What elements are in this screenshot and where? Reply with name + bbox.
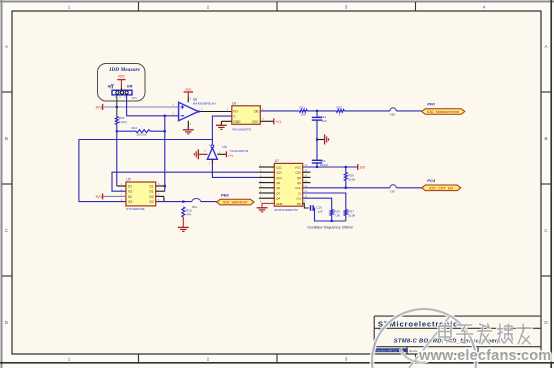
svg-text:Q9: Q9	[297, 181, 301, 185]
title block	[374, 315, 541, 317]
svg-text:Q5: Q5	[276, 186, 280, 190]
svg-text:IDD_WAKEUP: IDD_WAKEUP	[223, 201, 248, 205]
power +V1 (U4)	[217, 153, 226, 155]
svg-text:S1: S1	[128, 185, 132, 189]
svg-text:VDD: VDD	[185, 88, 192, 92]
wire R23 to R24 rail, down to U5 S1	[116, 125, 118, 187]
wire D2 to wakeup flag	[156, 201, 192, 203]
svg-text:Q8: Q8	[297, 176, 301, 180]
svg-text:Oscillator frequency 30KHz: Oscillator frequency 30KHz	[307, 226, 353, 230]
svg-text:D2: D2	[150, 200, 154, 204]
ground (R18)	[182, 217, 184, 227]
svg-text:+V1: +V1	[275, 120, 281, 124]
svg-text:STS4DNF60L: STS4DNF60L	[126, 207, 146, 211]
svg-text:IDD_Measurement: IDD_Measurement	[427, 110, 460, 114]
svg-text:G2: G2	[128, 200, 132, 204]
svg-text:2K(1%): 2K(1%)	[137, 133, 147, 137]
wire CLK long to PC4 flag	[303, 187, 390, 189]
svg-text:R24: R24	[132, 126, 138, 130]
svg-text:+V1: +V1	[228, 154, 234, 158]
svg-text:R21: R21	[300, 105, 306, 109]
ground (U9)	[221, 120, 231, 122]
svg-text:74V1G04STR: 74V1G04STR	[230, 149, 250, 153]
svg-text:SB7: SB7	[390, 189, 396, 193]
svg-text:Q7: Q7	[276, 191, 280, 195]
svg-text:on: on	[127, 83, 133, 89]
solder bridge SB4	[192, 199, 201, 202]
wire D2 tie	[156, 195, 164, 197]
resistor R21	[299, 109, 307, 112]
svg-text:3V3: 3V3	[96, 106, 102, 110]
svg-text:1uF: 1uF	[317, 209, 322, 213]
svg-text:Q10: Q10	[295, 171, 301, 175]
svg-text:PF0: PF0	[427, 102, 435, 107]
op-amp U8 MAX9938FEUK+	[179, 102, 199, 120]
ground (U7 GND)	[262, 203, 274, 207]
svg-text:PC4: PC4	[427, 178, 436, 183]
wire U4 input to U7 Q14	[211, 159, 213, 164]
svg-text:GND: GND	[233, 120, 241, 124]
wire op-amp out to U9	[198, 111, 232, 113]
net +V1 (U9 VCC)	[260, 120, 273, 122]
svg-text:Q12: Q12	[276, 165, 282, 169]
ground (U4, sideways left)	[198, 153, 207, 155]
svg-text:47K: 47K	[186, 213, 191, 217]
svg-text:B: B	[5, 136, 8, 141]
resistor R24	[117, 130, 136, 132]
inverter U4	[211, 140, 213, 145]
svg-text:Q13: Q13	[276, 171, 282, 175]
wire S1 stub	[117, 185, 126, 187]
svg-text:JP1: JP1	[132, 96, 138, 100]
border frame	[0, 1, 554, 3]
power VDD (op-amp)	[187, 96, 189, 102]
wire R21 to R22	[307, 110, 336, 112]
svg-text:www.elecfans.com: www.elecfans.com	[418, 348, 551, 364]
wire U9 OE to R21	[260, 110, 299, 112]
wire jumper pin3 (on) to op-amp -in	[127, 95, 179, 116]
svg-text:10K: 10K	[301, 112, 306, 116]
svg-text:100nF: 100nF	[320, 163, 329, 167]
svg-text:Q14: Q14	[276, 176, 282, 180]
resistor R23	[115, 117, 118, 125]
svg-text:Q6: Q6	[276, 181, 280, 185]
resistor R29	[330, 210, 333, 216]
svg-text:IDD_CNT_EN: IDD_CNT_EN	[429, 186, 453, 190]
svg-text:U5: U5	[126, 178, 130, 182]
svg-text:VCC: VCC	[295, 165, 301, 169]
U7 right stubs	[303, 171, 311, 173]
svg-text:B: B	[544, 136, 547, 141]
resistor R22	[336, 109, 344, 112]
ground (C14, sideways)	[317, 139, 325, 141]
svg-text:A: A	[544, 44, 547, 49]
svg-text:G1: G1	[128, 190, 132, 194]
svg-text:I/O: I/O	[233, 110, 238, 114]
wire U9 C pin down	[212, 116, 231, 139]
capacitor C15	[316, 140, 318, 161]
wire jumper pin1 (off) down	[116, 95, 118, 117]
svg-text:CI: CI	[298, 191, 301, 195]
svg-text:M74HC4060TTR: M74HC4060TTR	[274, 208, 298, 212]
svg-text:7.5K: 7.5K	[334, 213, 340, 217]
wire U7 pin to R29	[303, 198, 332, 209]
IC U7 M74HC4060TTR	[274, 163, 302, 206]
svg-text:3V3: 3V3	[360, 165, 366, 169]
svg-text:74V1G66STR: 74V1G66STR	[232, 127, 252, 131]
svg-text:R22: R22	[337, 105, 343, 109]
svg-text:Q4: Q4	[276, 197, 280, 201]
svg-text:U7: U7	[275, 159, 279, 163]
svg-text:1uF: 1uF	[322, 119, 327, 123]
wire Q13 to U5 G1	[112, 172, 259, 191]
svg-text:510K: 510K	[348, 213, 355, 217]
svg-text:SB6: SB6	[390, 113, 396, 117]
net 3V3 (U7 VCC)	[357, 164, 359, 170]
U7 left stubs	[259, 166, 274, 168]
ground (op-amp)	[187, 121, 189, 130]
wire R22 to flag	[344, 110, 390, 112]
watermark	[372, 309, 551, 368]
resistor R18	[182, 207, 185, 217]
svg-text:IDD Measure: IDD Measure	[108, 67, 140, 73]
svg-text:D2: D2	[150, 195, 154, 199]
svg-text:CO: CO	[297, 197, 302, 201]
svg-text:PE6: PE6	[221, 193, 229, 198]
svg-text:OE: OE	[254, 110, 259, 114]
wire D1 net vertical	[164, 116, 166, 191]
solder bridge SB7	[390, 185, 396, 188]
capacitor C16	[303, 203, 309, 208]
svg-text:S2: S2	[128, 195, 132, 199]
IDD Measure callout box	[98, 64, 146, 102]
svg-text:SB4: SB4	[192, 205, 198, 209]
svg-text:510K: 510K	[348, 177, 355, 181]
capacitor C14	[316, 111, 318, 118]
solder bridge SB6	[390, 108, 396, 111]
wire D1 stubs	[156, 185, 165, 187]
resistor R26	[345, 167, 347, 172]
jumper JP1	[112, 90, 132, 95]
svg-text:VDD: VDD	[118, 75, 125, 79]
svg-text:VCC: VCC	[252, 120, 259, 124]
resistor R27	[344, 210, 347, 216]
svg-text:1(1%): 1(1%)	[119, 120, 127, 124]
svg-text:U9: U9	[232, 101, 236, 105]
wire 3V3 to op-amp +in	[103, 106, 179, 108]
wire control net (U4 out to U9 C / U5 G2 loop)	[79, 140, 213, 202]
svg-text:GND: GND	[276, 202, 282, 206]
svg-text:CLK: CLK	[295, 186, 301, 190]
svg-text:Number:MB751: Number:MB751	[376, 349, 397, 353]
svg-text:D1: D1	[150, 190, 154, 194]
svg-text:A: A	[5, 44, 8, 49]
svg-text:U4: U4	[222, 145, 226, 149]
svg-text:D1: D1	[150, 185, 154, 189]
wire U7 VCC to 3V3	[303, 166, 358, 168]
svg-text:3V3: 3V3	[96, 195, 102, 199]
IC U5 STS4DNF60L	[126, 182, 156, 206]
IC U9 74V1G66STR	[232, 106, 260, 125]
svg-text:RS: RS	[297, 202, 301, 206]
svg-text:MAX9938FEUK+: MAX9938FEUK+	[193, 102, 217, 106]
wire U7 pin to R27	[303, 193, 346, 210]
